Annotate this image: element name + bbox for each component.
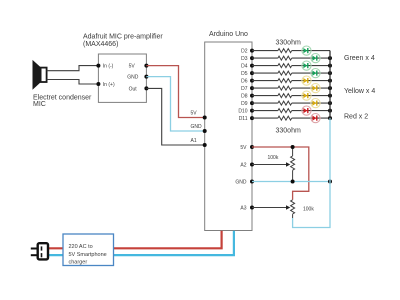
wire resistor to bus row D4 xyxy=(292,65,330,67)
wire GND to bus (cyan) xyxy=(252,181,330,183)
pin GND left xyxy=(191,124,207,133)
svg-text:Green x 4: Green x 4 xyxy=(344,55,375,62)
pin In(-) xyxy=(96,64,113,70)
pin D2 xyxy=(250,49,254,53)
pin 5V left xyxy=(191,111,207,120)
resistor 330ohm row D6 xyxy=(278,79,292,83)
pin D4 xyxy=(250,64,254,68)
wire 5V to pots (red) xyxy=(252,147,309,200)
svg-text:A2: A2 xyxy=(240,163,246,169)
svg-text:(MAX4466): (MAX4466) xyxy=(83,41,118,48)
wire MIC bottom to In(+) xyxy=(47,80,99,85)
resistor 330ohm row D5 xyxy=(278,71,292,75)
junction bus row D9 xyxy=(328,101,332,105)
wire D10 row xyxy=(252,110,278,112)
svg-text:D3: D3 xyxy=(241,56,248,62)
junction RV1 top xyxy=(291,145,295,149)
svg-text:D10: D10 xyxy=(238,109,247,115)
junction GND bus xyxy=(328,180,332,184)
svg-text:GND: GND xyxy=(191,124,203,130)
pin GND right xyxy=(235,180,254,186)
svg-text:GND: GND xyxy=(127,75,139,81)
wire 5V U1 to Arduino 5V (red) xyxy=(146,66,204,118)
junction bus row D8 xyxy=(328,94,332,98)
pin D5 xyxy=(250,71,254,75)
pin GND of U1 xyxy=(127,75,148,81)
label Adafruit MIC pre-amplifier (MAX4466) xyxy=(83,34,163,49)
pin Out of U1 xyxy=(129,86,149,92)
svg-text:5V: 5V xyxy=(129,64,136,70)
svg-text:GND: GND xyxy=(235,180,247,186)
pin 5V right xyxy=(240,145,254,151)
potentiometer RV1 100k xyxy=(291,147,295,182)
svg-text:charger: charger xyxy=(69,259,88,265)
wire D9 row xyxy=(252,102,278,104)
wire D3 row xyxy=(252,57,278,59)
svg-text:Arduino Uno: Arduino Uno xyxy=(209,31,248,38)
junction RV1 bottom / GND xyxy=(291,180,295,184)
svg-text:D2: D2 xyxy=(241,49,248,55)
pin D8 xyxy=(250,94,254,98)
svg-text:D5: D5 xyxy=(241,71,248,77)
resistor 330ohm row D2 xyxy=(278,49,292,53)
svg-text:D9: D9 xyxy=(241,101,248,107)
wire Out U1 to Arduino A1 xyxy=(146,88,204,145)
svg-text:5V Smartphone: 5V Smartphone xyxy=(69,252,107,258)
svg-text:D6: D6 xyxy=(241,79,248,85)
wire MIC top to In(-) xyxy=(47,66,99,71)
wire D4 row xyxy=(252,65,278,67)
wire D7 row xyxy=(252,87,278,89)
LED D3 xyxy=(311,54,320,63)
LED D11 xyxy=(311,114,320,123)
resistor 330ohm row D9 xyxy=(278,101,292,105)
pin D7 xyxy=(250,86,254,90)
svg-text:D11: D11 xyxy=(239,116,248,122)
wire resistor to bus row D2 xyxy=(292,50,330,52)
resistor 330ohm row D3 xyxy=(278,56,292,60)
label Electret condenser MIC xyxy=(33,95,92,109)
wire resistor to bus row D3 xyxy=(292,57,330,59)
pin D10 xyxy=(250,109,254,113)
pin D11 xyxy=(250,116,254,120)
wire resistor to bus row D6 xyxy=(292,80,330,82)
potentiometer RV2 100k xyxy=(291,200,295,218)
LED D10 xyxy=(302,106,311,115)
wire D8 row xyxy=(252,95,278,97)
svg-text:In (-): In (-) xyxy=(103,64,114,70)
LED D8 xyxy=(302,91,311,100)
svg-text:5V: 5V xyxy=(240,145,247,151)
wire D6 row xyxy=(252,80,278,82)
svg-text:In (+): In (+) xyxy=(103,82,115,88)
resistor 330ohm row D8 xyxy=(278,94,292,98)
microphone MIC (electret condenser) xyxy=(33,61,47,89)
wire D2 row xyxy=(252,50,278,52)
wire resistor to bus row D9 xyxy=(292,102,330,104)
svg-text:Out: Out xyxy=(129,86,138,92)
svg-text:330ohm: 330ohm xyxy=(276,40,301,47)
junction bus row D5 xyxy=(328,71,332,75)
junction bus row D11 xyxy=(328,116,332,120)
junction bus row D7 xyxy=(328,86,332,90)
op-amp module U1 Adafruit MAX4466 box xyxy=(98,54,146,102)
wiper arrow A3 to RV2 xyxy=(252,205,290,210)
wire D11 row xyxy=(252,117,278,119)
wire resistor to bus row D8 xyxy=(292,95,330,97)
svg-text:330ohm: 330ohm xyxy=(276,128,301,135)
wire resistor to bus row D5 xyxy=(292,72,330,74)
svg-text:A1: A1 xyxy=(191,138,197,144)
svg-text:D4: D4 xyxy=(241,64,248,70)
wire D5 row xyxy=(252,72,278,74)
svg-text:Yellow x 4: Yellow x 4 xyxy=(344,88,375,95)
wire resistor to bus row D7 xyxy=(292,87,330,89)
svg-text:D7: D7 xyxy=(241,86,248,92)
Arduino Uno box xyxy=(205,42,252,231)
svg-text:220 AC to: 220 AC to xyxy=(69,244,93,250)
svg-text:100k: 100k xyxy=(303,207,314,213)
LED D2 xyxy=(302,46,311,55)
pin D6 xyxy=(250,79,254,83)
pin In(+) xyxy=(96,82,115,88)
LED D9 xyxy=(311,99,320,108)
LED D7 xyxy=(311,84,320,93)
resistor 330ohm row D4 xyxy=(278,64,292,68)
pin A3 xyxy=(240,206,254,212)
wire LED cathode bus (black) xyxy=(329,51,331,119)
LED D6 xyxy=(302,76,311,85)
pin A1 left xyxy=(191,138,207,147)
LED D5 xyxy=(311,69,320,78)
resistor 330ohm row D7 xyxy=(278,86,292,90)
junction bus row D10 xyxy=(328,109,332,113)
svg-text:Red x 2: Red x 2 xyxy=(344,114,368,121)
resistor 330ohm row D11 xyxy=(278,116,292,120)
wire cathode bus to RV2 bottom (cyan) xyxy=(293,118,330,227)
wiper arrow A2 to RV1 xyxy=(252,162,290,167)
svg-text:D8: D8 xyxy=(241,94,248,100)
svg-text:A3: A3 xyxy=(240,206,246,212)
wire charger 5V to Arduino Vin (red) xyxy=(48,231,222,249)
pin D9 xyxy=(250,101,254,105)
resistor 330ohm row D10 xyxy=(278,109,292,113)
AC plug P1 xyxy=(31,243,48,259)
junction bus row D3 xyxy=(328,56,332,60)
wire GND U1 to Arduino GND (cyan) xyxy=(146,77,204,131)
junction bus row D4 xyxy=(328,64,332,68)
wire resistor to bus row D10 xyxy=(292,110,330,112)
svg-text:Adafruit MIC pre-amplifier: Adafruit MIC pre-amplifier xyxy=(83,34,163,41)
pin A2 xyxy=(240,163,254,169)
svg-text:5V: 5V xyxy=(191,111,198,117)
junction bus row D6 xyxy=(328,79,332,83)
svg-text:MIC: MIC xyxy=(33,101,46,108)
pin D3 xyxy=(250,56,254,60)
wire charger GND to Arduino (cyan) xyxy=(48,231,234,255)
LED D4 xyxy=(302,61,311,70)
charger box 220AC to 5V xyxy=(63,234,114,266)
pin 5V of U1 xyxy=(129,64,149,70)
svg-text:100k: 100k xyxy=(268,155,279,161)
wire resistor to bus row D11 xyxy=(292,117,330,119)
